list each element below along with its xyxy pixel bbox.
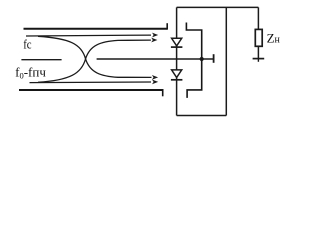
label f0-fпч — [15, 64, 46, 80]
wire: coupler curve rising (lower-left to upper-right) with arrow — [38, 38, 157, 83]
diode VD2 — [171, 70, 183, 80]
wire: lower straight conductor with arrow — [30, 80, 159, 85]
wire: coupler curve falling (upper-left to lower-right) with arrow — [38, 36, 158, 80]
wire: upper straight conductor with arrow — [26, 33, 158, 38]
resistor Zн (load) — [255, 7, 262, 58]
svg-text:Zн: Zн — [267, 30, 281, 45]
waveguide top wall — [24, 23, 168, 29]
wire: center conductor left stub — [21, 59, 61, 61]
svg-text:f0-fпч: f0-fпч — [15, 64, 46, 80]
wire: top bus — [177, 6, 259, 8]
terminal bar at IF output end — [213, 54, 215, 63]
ground bar under Zн — [253, 59, 265, 62]
diode VD1 — [171, 38, 183, 47]
node: junction dot — [200, 57, 204, 61]
waveguide bottom wall — [19, 89, 163, 96]
wire: bottom bus — [177, 115, 227, 117]
svg-text:fc: fc — [23, 36, 32, 51]
wire: right cavity wall (step) — [186, 23, 201, 98]
wire: left vertical (diode branch) — [176, 7, 178, 115]
wire: right vertical return — [225, 7, 227, 115]
wire: IF output line — [97, 58, 214, 60]
